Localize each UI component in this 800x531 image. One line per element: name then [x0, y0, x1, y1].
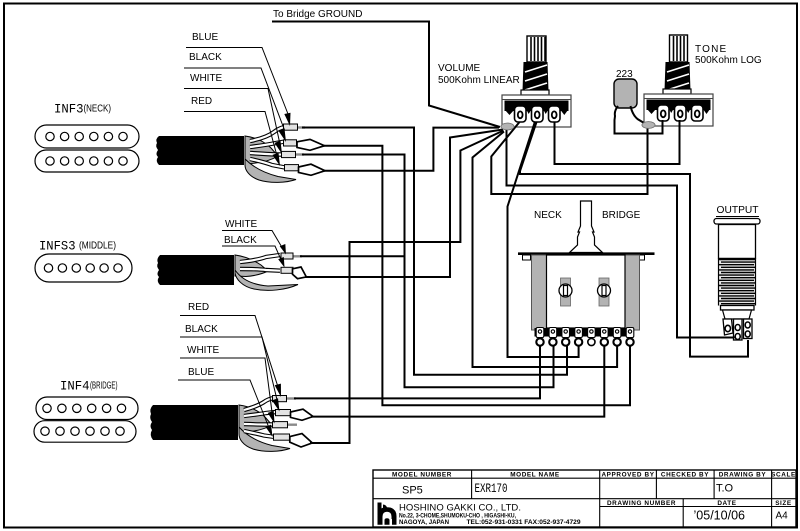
volume ground solder blob [501, 123, 514, 130]
neck cable shield [245, 136, 278, 164]
svg-text:INF3: INF3 [54, 102, 84, 117]
switch left rail [532, 255, 547, 330]
wire neck blue: W1 to switch lug3 [302, 128, 567, 375]
tone lug1 [658, 105, 670, 121]
bridge cable [150, 405, 238, 440]
jack threads [719, 259, 756, 307]
neck wire blue (W1) [250, 127, 285, 141]
svg-text:(BRIDGE): (BRIDGE) [90, 380, 118, 392]
connector neck W4 [299, 164, 326, 175]
volume body [502, 95, 571, 127]
middle wire black (W2) [240, 269, 280, 271]
potentiometer VOLUME 500Kohm LINEAR [438, 36, 571, 130]
switch terminal tab holes [538, 330, 631, 333]
svg-text:VOLUME: VOLUME [438, 63, 481, 74]
switch terminal tabs [536, 328, 634, 338]
svg-text:223: 223 [616, 69, 633, 80]
wire bridge red: to switch lug1 [294, 346, 540, 398]
label RED [184, 96, 280, 166]
volume bushing (threaded) [523, 62, 549, 91]
svg-text:BLUE: BLUE [192, 32, 218, 43]
svg-text:DRAWING NUMBER: DRAWING NUMBER [607, 500, 676, 507]
switch mounting plate [518, 252, 655, 255]
svg-text:MODEL NUMBER: MODEL NUMBER [392, 472, 452, 479]
bridge wire red (W1) [244, 398, 274, 410]
connector bridge W4 [290, 434, 313, 447]
svg-text:MODEL NAME: MODEL NAME [510, 472, 560, 479]
wire bridge blue: to volume ground blob [310, 131, 504, 444]
neck cable [156, 136, 244, 165]
switch terminal strip [535, 328, 635, 337]
label RED (bridge) [180, 302, 281, 397]
potentiometer TONE 500Kohm LOG [642, 35, 762, 128]
pickup INF3 (neck) [35, 102, 139, 173]
middle cable shield [235, 255, 268, 277]
svg-text:NECK: NECK [534, 210, 562, 221]
neck coil bottom [35, 150, 139, 172]
switch screw slot right [599, 278, 609, 306]
wire neck red: W4 to volume ground blob [324, 128, 499, 171]
wire to bridge ground [272, 22, 500, 128]
svg-text:APPROVED BY: APPROVED BY [601, 472, 654, 479]
label BLUE (bridge) [178, 367, 273, 437]
tone ground solder blob [642, 122, 655, 129]
middle coil [35, 254, 132, 282]
svg-text:SP5: SP5 [402, 485, 423, 497]
wire middle black: to volume ground blob [305, 130, 503, 278]
label WHITE (middle) [222, 219, 286, 255]
jack tip lug [744, 319, 753, 339]
wire volume blob to jack sleeve [507, 130, 735, 338]
wire volume lug1 to tone blob [491, 122, 647, 194]
svg-text:INF4: INF4 [60, 379, 90, 394]
svg-text:OUTPUT: OUTPUT [717, 205, 759, 216]
label BLUE [186, 32, 291, 126]
svg-text:CHECKED BY: CHECKED BY [661, 472, 709, 479]
neck wire black (W2) [250, 142, 285, 148]
wire middle white: joins neck white vertical [300, 255, 405, 257]
svg-text:RED: RED [188, 302, 209, 313]
svg-text:DATE: DATE [717, 500, 736, 507]
connector neck W2 [297, 139, 325, 150]
pickup INF4 (bridge) [34, 379, 138, 443]
volume lug3 [549, 106, 561, 122]
label WHITE (bridge) [180, 345, 275, 424]
svg-text:INFS3: INFS3 [39, 239, 76, 254]
label BLACK (bridge) [180, 324, 280, 412]
switch right rail [625, 255, 640, 330]
svg-text:500Kohm LOG: 500Kohm LOG [695, 55, 762, 66]
volume lug1 [515, 106, 527, 122]
capacitor left leg to tone lug1 [615, 106, 663, 134]
label BLACK (middle) [222, 235, 285, 268]
svg-text:BLACK: BLACK [189, 52, 222, 63]
switch screw slot left [561, 278, 571, 306]
wire ground blob to switch lug7 [473, 132, 618, 368]
bridge cable shield [239, 405, 272, 432]
svg-text:BRIDGE: BRIDGE [602, 210, 641, 221]
svg-text:WHITE: WHITE [187, 345, 220, 356]
svg-text:SCALE: SCALE [771, 472, 796, 479]
bridge wire white (W3) [244, 422, 274, 427]
tone bushing flange [663, 89, 691, 94]
svg-text:TONE: TONE [695, 44, 727, 55]
jack middle lug [734, 319, 743, 340]
capacitor right leg to tone blob [631, 106, 647, 125]
svg-text:BLACK: BLACK [185, 324, 218, 335]
svg-text:500Kohm LINEAR: 500Kohm LINEAR [438, 75, 520, 86]
svg-text:T.O: T.O [716, 483, 734, 495]
svg-text:TEL:052-931-0331 FAX:052-937-: TEL:052-931-0331 FAX:052-937-4729 [467, 519, 582, 526]
svg-text:WHITE: WHITE [225, 219, 258, 230]
switch shaft [570, 201, 603, 253]
neck wire red (W4) [250, 159, 285, 168]
neck coil top [35, 125, 139, 148]
tone shaft knurl [670, 35, 688, 62]
wire volume lug2 to jack tip [520, 122, 748, 357]
pickup INFS3 (middle) [35, 239, 132, 283]
wire volume lug2 to switch lug4 [508, 122, 579, 358]
bridge wire black (W2) [244, 412, 276, 416]
svg-text:DRAWING BY: DRAWING BY [719, 472, 767, 479]
bridge wire blue (W4) [244, 431, 275, 437]
switch terminals 1-8 [536, 328, 634, 346]
wire bridge black: to switch lug6 [311, 346, 604, 417]
wire neck white: W3 to switch lug2 [302, 155, 554, 388]
svg-text:EXR170: EXR170 [475, 482, 508, 496]
svg-text:BLACK: BLACK [224, 235, 257, 246]
bridge coil bottom [34, 421, 136, 443]
volume shaft knurl [527, 36, 546, 62]
jack top flange [714, 219, 760, 225]
volume bushing flange [521, 90, 549, 95]
wire neck black: W2 to switch lug8 [323, 146, 630, 406]
bridge coil top [36, 397, 138, 420]
jack bottom step [721, 306, 755, 311]
title block [373, 470, 796, 527]
tone lug2 [675, 105, 687, 121]
5-way switch [518, 201, 655, 346]
tone bushing (threaded) [665, 62, 691, 91]
jack base [723, 310, 752, 319]
svg-text:(MIDDLE): (MIDDLE) [79, 240, 116, 252]
svg-text:’05/10/06: ’05/10/06 [694, 508, 746, 523]
jack cylinder [719, 225, 756, 259]
capacitor 223 [614, 69, 637, 108]
switch terminal solder rings [536, 338, 633, 345]
Hoshino logo [378, 503, 397, 526]
tone body [644, 94, 713, 126]
volume ground solder blob (top) [501, 123, 514, 130]
connector middle W2 [293, 267, 307, 279]
label BLACK [184, 52, 286, 142]
connector bridge W2 [291, 409, 314, 420]
svg-text:(NECK): (NECK) [84, 103, 112, 115]
svg-text:RED: RED [191, 96, 212, 107]
svg-text:A4: A4 [776, 511, 789, 522]
jack sleeve lug [723, 319, 733, 335]
svg-text:SIZE: SIZE [775, 500, 792, 507]
middle wire white (W1) [240, 255, 280, 262]
svg-text:NAGOYA, JAPAN: NAGOYA, JAPAN [399, 519, 450, 526]
tone lug3 [692, 105, 704, 121]
svg-text:BLUE: BLUE [188, 367, 214, 378]
volume lug2 [532, 106, 544, 122]
output jack [714, 205, 760, 340]
wire volume lug3 to tone lug2 [555, 120, 680, 164]
neck wire white (W3) [250, 153, 284, 155]
tone ground solder blob (top) [642, 122, 655, 129]
switch body [547, 255, 626, 328]
middle cable [157, 255, 234, 285]
label WHITE [184, 73, 282, 154]
svg-text:To Bridge GROUND: To Bridge GROUND [273, 9, 362, 20]
svg-text:WHITE: WHITE [190, 73, 223, 84]
